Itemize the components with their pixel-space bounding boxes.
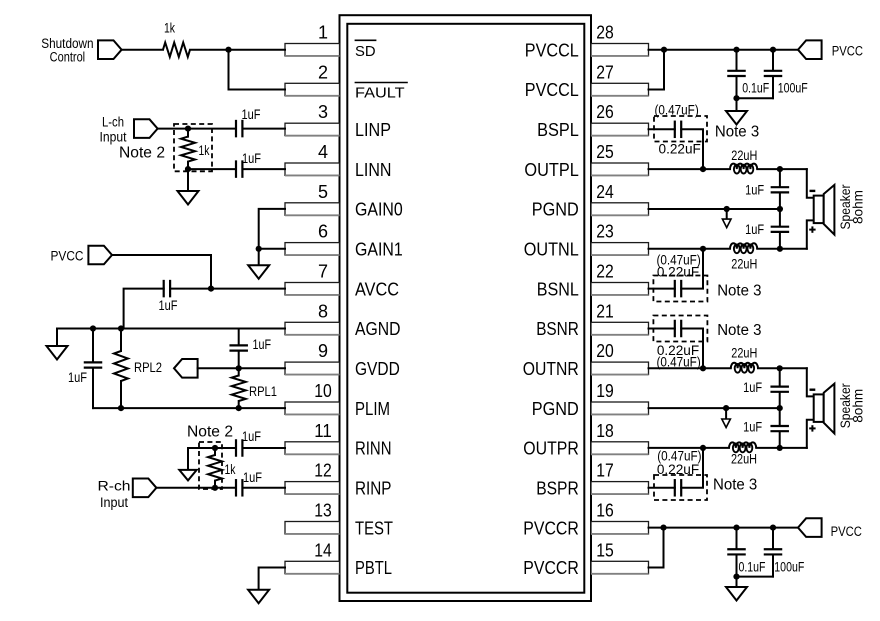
svg-text:BSPR: BSPR	[536, 478, 579, 499]
pin 17 label BSPR	[536, 478, 579, 499]
capacitor C19 100uF	[764, 528, 805, 577]
svg-text:GAIN0: GAIN0	[355, 199, 403, 220]
svg-text:OUTPR: OUTPR	[523, 438, 579, 459]
pin 24 box	[591, 203, 649, 216]
svg-text:Note 3: Note 3	[717, 322, 761, 339]
wire speaker2 plus lead	[807, 420, 814, 448]
capacitor C3 1uF	[159, 280, 178, 313]
note box Note 2 (left)	[119, 124, 212, 171]
junction	[236, 405, 242, 411]
wire	[243, 487, 285, 489]
junction	[777, 206, 783, 212]
pin 13 label TEST	[355, 517, 393, 538]
svg-text:8: 8	[318, 301, 328, 321]
svg-text:PVCCL: PVCCL	[525, 79, 579, 100]
svg-text:22uH: 22uH	[731, 452, 757, 467]
svg-text:PGND: PGND	[532, 398, 579, 419]
svg-text:1uF: 1uF	[745, 222, 764, 237]
wire	[259, 568, 285, 590]
pin 6 label GAIN1	[355, 239, 403, 260]
op-amp U1 body outer	[340, 15, 592, 601]
svg-text:RINP: RINP	[355, 478, 392, 499]
pin 1 box	[285, 44, 340, 57]
pin number 12	[314, 461, 332, 481]
svg-text:9: 9	[318, 341, 328, 361]
wire OUTNR	[649, 367, 731, 369]
capacitor C13 0.22uF bootstrap	[649, 249, 708, 302]
svg-text:1uF: 1uF	[242, 429, 261, 444]
svg-text:8ohm: 8ohm	[851, 389, 866, 423]
wire	[736, 577, 738, 587]
pin 16 label PVCCR	[523, 517, 579, 538]
pin 19 box	[591, 402, 649, 415]
svg-text:23: 23	[596, 222, 614, 242]
svg-text:6: 6	[318, 222, 328, 242]
junction	[724, 206, 730, 212]
capacitor C12 1uF	[745, 209, 789, 249]
svg-text:7: 7	[318, 262, 328, 282]
pin 4 box	[285, 163, 340, 176]
pin number 19	[596, 381, 614, 401]
svg-text:Note 2: Note 2	[187, 424, 233, 441]
svg-text:PVCCR: PVCCR	[523, 557, 579, 578]
junction	[733, 574, 739, 580]
wire speaker2 minus lead	[807, 368, 814, 396]
junction	[256, 246, 262, 252]
svg-text:PVCC: PVCC	[831, 524, 863, 539]
pin 22 label BSNL	[537, 278, 579, 299]
pin 28 box	[591, 44, 649, 57]
resistor RPL1	[232, 368, 277, 408]
junction	[118, 405, 124, 411]
pin 3 label LINP	[355, 119, 391, 140]
port PVCC (top right)	[798, 40, 863, 59]
junction	[770, 525, 776, 531]
pin 19 label PGND	[532, 398, 579, 419]
svg-text:PVCC: PVCC	[51, 249, 84, 264]
svg-text:12: 12	[314, 461, 332, 481]
capacitor C4 1uF	[68, 329, 102, 409]
pin 22 box	[591, 283, 649, 296]
wire	[737, 97, 774, 99]
junction	[661, 47, 667, 53]
wire PVCCL rail	[649, 49, 799, 51]
svg-text:1uF: 1uF	[68, 370, 87, 385]
wire	[259, 209, 285, 249]
ground	[248, 590, 269, 604]
wire	[156, 487, 234, 489]
port GVDD tag	[174, 359, 198, 378]
pin number 5	[318, 182, 328, 202]
svg-text:1uF: 1uF	[253, 337, 272, 352]
junction	[723, 405, 729, 411]
pin number 14	[314, 540, 332, 560]
pin 11 label RINN	[355, 438, 392, 459]
wire speaker1 plus lead	[807, 220, 814, 248]
pin 10 box	[285, 402, 340, 415]
svg-text:0.1uF: 0.1uF	[739, 560, 766, 575]
ground	[726, 111, 747, 125]
junction	[660, 525, 666, 531]
pin 14 label PBTL	[355, 557, 392, 578]
wire PGND R	[649, 407, 780, 409]
svg-text:1k: 1k	[199, 143, 210, 158]
svg-text:15: 15	[596, 540, 614, 560]
pin 7 label AVCC	[355, 278, 399, 299]
resistor R1 1k	[163, 21, 190, 57]
capacitor C6 1uF	[236, 429, 261, 457]
pin 3 box	[285, 123, 340, 136]
speaker SP1 8ohm	[809, 184, 865, 235]
junction	[777, 445, 783, 451]
capacitor C11 1uF	[771, 169, 790, 209]
pin number 6	[318, 222, 328, 242]
wire	[188, 168, 235, 170]
svg-text:1uF: 1uF	[242, 107, 261, 122]
pin 21 label BSNR	[536, 318, 579, 339]
svg-text:1k: 1k	[164, 21, 175, 36]
svg-text:OUTPL: OUTPL	[524, 159, 578, 180]
pin 5 box	[285, 203, 340, 216]
svg-text:22uH: 22uH	[731, 257, 757, 272]
junction	[777, 405, 783, 411]
svg-text:5: 5	[318, 182, 328, 202]
pin 14 box	[285, 561, 340, 574]
svg-text:20: 20	[596, 341, 614, 361]
wire AGND rail	[57, 328, 285, 330]
svg-text:BSPL: BSPL	[537, 119, 579, 140]
wire	[158, 128, 235, 130]
pin number 10	[314, 381, 332, 401]
pin 4 label LINN	[355, 159, 392, 180]
pin number 28	[596, 23, 614, 43]
svg-text:PBTL: PBTL	[355, 557, 392, 578]
svg-text:AVCC: AVCC	[355, 278, 399, 299]
junction	[733, 95, 739, 101]
svg-text:18: 18	[596, 421, 614, 441]
svg-text:22: 22	[596, 262, 614, 282]
wire	[122, 49, 163, 51]
capacitor C8 0.1uF	[727, 50, 769, 98]
pin 17 box	[591, 482, 649, 495]
svg-text:0.22uF: 0.22uF	[659, 142, 701, 157]
capacitor C15 1uF	[743, 368, 789, 408]
pin 26 box	[591, 123, 649, 136]
svg-text:21: 21	[596, 301, 614, 321]
wire	[170, 288, 211, 290]
port Shutdown Control	[41, 36, 121, 64]
svg-text:RINN: RINN	[355, 438, 392, 459]
pin number 11	[314, 421, 332, 441]
wire	[198, 367, 285, 369]
svg-text:28: 28	[596, 23, 614, 43]
pin number 3	[318, 102, 328, 122]
pin 28 label PVCCL	[525, 39, 579, 60]
svg-text:Note 3: Note 3	[717, 283, 761, 300]
capacitor C5 1uF	[229, 329, 271, 369]
svg-text:LINN: LINN	[355, 159, 392, 180]
pin 24 label PGND	[532, 199, 579, 220]
op-amp U1 body inner	[347, 24, 584, 593]
wire	[243, 128, 285, 130]
svg-text:1uF: 1uF	[745, 183, 764, 198]
pin number 4	[318, 142, 328, 162]
svg-text:Note 2: Note 2	[119, 145, 165, 162]
node watermark	[418, 318, 538, 330]
pin 20 label OUTNR	[523, 358, 579, 379]
ground	[47, 346, 68, 360]
wire	[124, 289, 164, 329]
junction	[236, 365, 242, 371]
pin number 7	[318, 262, 328, 282]
junction	[777, 365, 783, 371]
junction	[700, 445, 706, 451]
svg-text:1: 1	[318, 23, 328, 43]
wire	[757, 168, 807, 170]
pin 11 box	[285, 442, 340, 455]
pin 7 box	[285, 283, 340, 296]
junction	[700, 246, 706, 252]
ground	[726, 587, 747, 601]
svg-text:16: 16	[596, 501, 614, 521]
wire speaker1 minus lead	[807, 169, 814, 198]
pin 2 label FAULT	[355, 83, 408, 102]
svg-text:GVDD: GVDD	[355, 358, 400, 379]
svg-text:0.22uF: 0.22uF	[657, 462, 699, 477]
pin number 25	[596, 142, 614, 162]
pin 27 box	[591, 83, 649, 96]
wire PVCCR rail	[649, 527, 799, 529]
svg-text:10: 10	[314, 381, 332, 401]
port L-ch Input	[100, 114, 158, 144]
junction	[700, 166, 706, 172]
note Note 3	[717, 322, 761, 339]
junction	[185, 166, 191, 172]
resistor R2 1k	[181, 129, 210, 170]
svg-text:PVCC: PVCC	[832, 44, 864, 59]
wire	[211, 288, 285, 290]
pin 12 box	[285, 482, 340, 495]
junction	[185, 126, 191, 132]
junction	[770, 47, 776, 53]
svg-text:17: 17	[596, 461, 614, 481]
capacitor C1 1uF	[236, 107, 261, 137]
wire OUTPR	[649, 447, 730, 449]
pin 8 box	[285, 322, 340, 335]
note Note 3	[713, 477, 757, 494]
ground small arrow	[722, 408, 731, 427]
pin number 17	[596, 461, 614, 481]
label C11 1uF	[745, 183, 764, 198]
svg-text:OUTNR: OUTNR	[523, 358, 579, 379]
svg-text:R-ch: R-ch	[98, 479, 131, 494]
junction	[212, 485, 218, 491]
wire OUTPL	[649, 168, 731, 170]
junction	[777, 166, 783, 172]
pin 15 label PVCCR	[523, 557, 579, 578]
wire	[258, 249, 260, 265]
wire	[758, 367, 807, 369]
note box Note 2 (right)	[187, 424, 233, 490]
pin 13 box	[285, 522, 340, 535]
svg-text:1k: 1k	[225, 462, 236, 477]
wire	[190, 49, 285, 51]
pin 2 box	[285, 83, 340, 96]
svg-text:OUTNL: OUTNL	[524, 239, 579, 260]
pin 26 label BSPL	[537, 119, 579, 140]
wire	[243, 447, 285, 449]
pin number 15	[596, 540, 614, 560]
svg-text:FAULT: FAULT	[355, 85, 405, 102]
svg-text:Control: Control	[50, 49, 86, 64]
resistor RPL2	[114, 329, 162, 409]
pin 12 label RINP	[355, 478, 392, 499]
wire	[112, 255, 211, 289]
pin number 18	[596, 421, 614, 441]
port PVCC (left)	[51, 246, 113, 265]
junction	[700, 365, 706, 371]
svg-text:PGND: PGND	[532, 199, 579, 220]
svg-text:11: 11	[314, 421, 332, 441]
junction	[225, 47, 231, 53]
note Note 3	[715, 124, 759, 141]
pin 5 label GAIN0	[355, 199, 403, 220]
junction	[118, 325, 124, 331]
svg-text:24: 24	[596, 182, 614, 202]
pin 9 label GVDD	[355, 358, 400, 379]
svg-text:26: 26	[596, 102, 614, 122]
wire	[736, 98, 738, 111]
pin number 23	[596, 222, 614, 242]
pin 27 label PVCCL	[525, 79, 579, 100]
wire	[757, 248, 807, 250]
svg-text:100uF: 100uF	[774, 560, 804, 575]
speaker SP2 8ohm	[809, 383, 865, 434]
svg-text:1uF: 1uF	[243, 470, 262, 485]
pin 23 label OUTNL	[524, 239, 579, 260]
pin number 21	[596, 301, 614, 321]
svg-text:1uF: 1uF	[159, 298, 178, 313]
junction	[733, 47, 739, 53]
pin 18 box	[591, 442, 649, 455]
capacitor C2 1uF	[236, 151, 261, 178]
svg-text:1uF: 1uF	[242, 151, 261, 166]
capacitor C7 1uF	[236, 470, 262, 497]
svg-text:PLIM: PLIM	[355, 398, 390, 419]
junction	[733, 525, 739, 531]
svg-text:BSNR: BSNR	[536, 318, 579, 339]
inductor L3 22uH	[731, 346, 758, 373]
svg-text:4: 4	[318, 142, 328, 162]
junction	[90, 325, 96, 331]
wire OUTNL	[649, 248, 731, 250]
wire	[56, 329, 58, 347]
pin 18 label OUTPR	[523, 438, 579, 459]
pin 15 box	[591, 561, 649, 574]
svg-text:GAIN1: GAIN1	[355, 239, 403, 260]
ground small arrow	[722, 209, 731, 228]
wire	[229, 50, 286, 90]
pin 25 box	[591, 163, 649, 176]
svg-text:Note 3: Note 3	[715, 124, 759, 141]
svg-text:Input: Input	[100, 495, 128, 510]
svg-text:1uF: 1uF	[743, 380, 762, 395]
svg-text:100uF: 100uF	[778, 81, 808, 96]
ground	[178, 191, 199, 205]
pin number 1	[318, 23, 328, 43]
pin 23 box	[591, 243, 649, 256]
pin number 2	[318, 62, 328, 82]
note Note 3	[717, 283, 761, 300]
svg-text:22uH: 22uH	[731, 346, 757, 361]
pin number 8	[318, 301, 328, 321]
svg-text:3: 3	[318, 102, 328, 122]
inductor L1 22uH	[730, 148, 757, 174]
wire	[649, 50, 665, 90]
svg-text:PVCCR: PVCCR	[523, 517, 579, 538]
inductor L4 22uH	[729, 442, 757, 466]
pin number 20	[596, 341, 614, 361]
resistor R3 1k	[208, 448, 236, 488]
svg-text:L-ch: L-ch	[102, 114, 124, 129]
svg-text:Input: Input	[100, 130, 127, 145]
capacitor C18 0.1uF	[727, 528, 765, 577]
junction	[777, 246, 783, 252]
svg-text:BSNL: BSNL	[537, 278, 579, 299]
pin number 13	[314, 501, 332, 521]
pin 1 label SD	[355, 40, 377, 60]
capacitor C14 0.22uF bootstrap	[649, 316, 708, 370]
svg-text:8ohm: 8ohm	[851, 190, 866, 224]
pin number 16	[596, 501, 614, 521]
svg-text:19: 19	[596, 381, 614, 401]
wire	[243, 168, 285, 170]
pin 9 box	[285, 362, 340, 375]
svg-text:TEST: TEST	[355, 517, 393, 538]
pin 6 box	[285, 243, 340, 256]
pin number 22	[596, 262, 614, 282]
wire	[756, 447, 807, 449]
port R-ch Input	[98, 479, 157, 511]
pin 10 label PLIM	[355, 398, 390, 419]
svg-text:25: 25	[596, 142, 614, 162]
wire PLIM rail	[93, 407, 285, 409]
svg-text:1uF: 1uF	[743, 420, 762, 435]
wire	[187, 169, 189, 191]
capacitor C16 1uF	[743, 408, 789, 448]
svg-text:0.1uF: 0.1uF	[742, 81, 769, 96]
junction	[212, 445, 218, 451]
wire	[737, 576, 774, 578]
svg-text:22uH: 22uH	[731, 148, 757, 163]
wire	[649, 528, 664, 568]
svg-text:RPL2: RPL2	[134, 360, 162, 375]
svg-text:13: 13	[314, 501, 332, 521]
svg-text:RPL1: RPL1	[249, 384, 277, 399]
pin number 27	[596, 62, 614, 82]
svg-text:(0.47uF): (0.47uF)	[654, 102, 698, 117]
inductor L2 22uH	[730, 243, 757, 271]
pin 25 label OUTPL	[524, 159, 578, 180]
svg-text:0.22uF: 0.22uF	[657, 264, 699, 279]
svg-text:PVCCL: PVCCL	[525, 39, 579, 60]
svg-text:27: 27	[596, 62, 614, 82]
wire PGND L	[649, 208, 780, 210]
pin number 9	[318, 341, 328, 361]
capacitor C17 0.22uF bootstrap	[649, 448, 708, 500]
svg-text:LINP: LINP	[355, 119, 391, 140]
port PVCC (bottom right)	[798, 518, 862, 539]
